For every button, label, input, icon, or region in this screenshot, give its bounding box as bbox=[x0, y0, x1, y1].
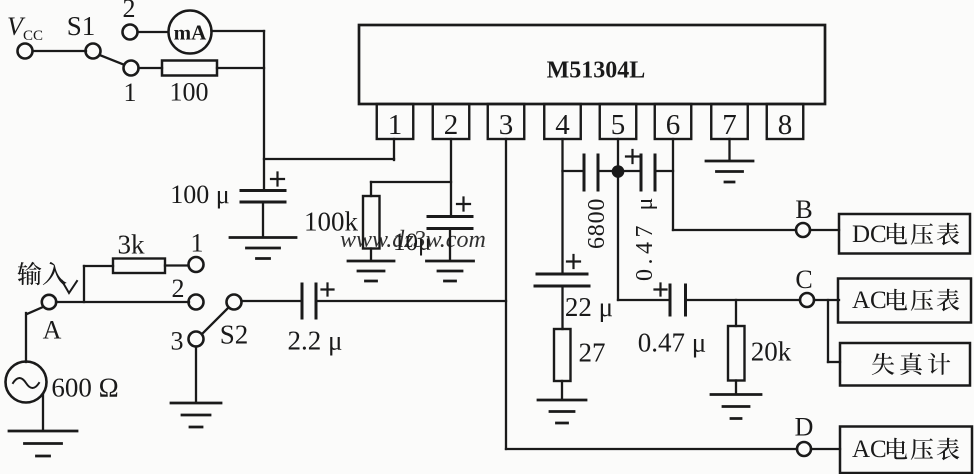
wire 100k to ground bbox=[370, 249, 372, 261]
switch S2 arm bbox=[203, 308, 229, 334]
plus sign of 22u bbox=[567, 255, 580, 268]
ground under 27 bbox=[538, 400, 586, 423]
capacitor 2.2u bbox=[301, 284, 304, 318]
wire 100u to ground bbox=[262, 202, 264, 236]
plus sign of 0.47u first bbox=[626, 150, 639, 163]
wire 2.2u to pin3 wire bbox=[316, 300, 506, 302]
svg-text:5: 5 bbox=[611, 109, 626, 141]
svg-text:22 μ: 22 μ bbox=[565, 292, 613, 322]
S2 contact 2 bbox=[189, 295, 204, 310]
wire mA to rail bbox=[212, 30, 265, 32]
svg-text:100: 100 bbox=[170, 78, 209, 107]
box DC voltmeter bbox=[839, 214, 970, 254]
switch S2 pole bbox=[227, 295, 242, 310]
wire 3k to contact1 bbox=[165, 264, 188, 266]
svg-text:20k: 20k bbox=[751, 337, 792, 367]
capacitor 0.47u lower bbox=[669, 285, 672, 315]
svg-text:8: 8 bbox=[778, 109, 793, 141]
signal source 600ohm bbox=[6, 362, 47, 403]
svg-text:3: 3 bbox=[171, 327, 184, 356]
switch S1 pivot contact bbox=[86, 44, 101, 59]
resistor 3k bbox=[113, 259, 165, 274]
resistor 100k bbox=[363, 196, 380, 249]
svg-text:100 μ: 100 μ bbox=[170, 180, 229, 209]
wire branch to distortion meter bbox=[827, 300, 829, 362]
capacitor 22u bbox=[537, 273, 587, 276]
wire pin1 down bbox=[393, 139, 395, 160]
S1 contact 1 bbox=[124, 61, 139, 76]
pin 1 box bbox=[377, 104, 414, 139]
terminal A bbox=[42, 295, 56, 309]
input label 输入 bbox=[17, 262, 41, 285]
wire to 0.47u lower bbox=[618, 299, 670, 301]
wire 0.47u to pin6 wire bbox=[655, 170, 673, 172]
wire pin3 down to D row bbox=[505, 139, 507, 449]
svg-text:2: 2 bbox=[172, 274, 185, 303]
wire down to source bbox=[25, 313, 27, 362]
text 失真计 bbox=[872, 353, 894, 375]
svg-text:27: 27 bbox=[579, 338, 606, 368]
wire to 20k bbox=[735, 300, 737, 326]
svg-text:1: 1 bbox=[388, 109, 403, 141]
svg-text:7: 7 bbox=[722, 109, 737, 141]
wire pin7 down bbox=[728, 139, 730, 160]
svg-text:2.2 μ: 2.2 μ bbox=[288, 326, 343, 356]
svg-text:1: 1 bbox=[191, 229, 204, 258]
resistor 100 bbox=[162, 61, 217, 76]
wire contact3 to ground bbox=[195, 347, 197, 403]
wire Vcc to S1 pivot bbox=[33, 50, 86, 52]
wire 27 to ground bbox=[561, 381, 563, 399]
wire pin2 to 100k bbox=[371, 181, 451, 183]
svg-text:3k: 3k bbox=[118, 230, 146, 260]
wire A to source bbox=[27, 307, 43, 314]
svg-text:M51304L: M51304L bbox=[547, 58, 646, 84]
IC M51304L body bbox=[359, 25, 825, 104]
wire rail to pin1 bbox=[264, 158, 394, 160]
wire pin6 down bbox=[672, 139, 674, 230]
wire pin5 down bbox=[617, 139, 619, 300]
wire pin4 to 6800 bbox=[563, 170, 585, 172]
Vcc terminal bbox=[18, 44, 33, 59]
ground under S2 bbox=[171, 403, 221, 427]
terminal B bbox=[796, 223, 810, 237]
svg-text:AC: AC bbox=[852, 287, 887, 314]
svg-text:C: C bbox=[795, 265, 812, 294]
svg-text:0.47 μ: 0.47 μ bbox=[638, 328, 706, 358]
svg-text:B: B bbox=[795, 195, 812, 224]
switch S1 arm bbox=[100, 55, 124, 65]
wire S2 to 2.2u bbox=[242, 300, 303, 302]
wire 100k top bbox=[370, 182, 372, 196]
pin 4 box bbox=[544, 104, 581, 139]
wire into distortion meter bbox=[828, 361, 840, 363]
wire resistor to rail bbox=[217, 67, 264, 69]
svg-text:3: 3 bbox=[499, 109, 514, 141]
svg-text:600 Ω: 600 Ω bbox=[51, 373, 118, 403]
svg-text:2: 2 bbox=[444, 109, 459, 141]
svg-text:2: 2 bbox=[123, 0, 136, 23]
input arrow bbox=[62, 281, 77, 293]
resistor 27 bbox=[554, 329, 571, 381]
wire A to S2 contact2 bbox=[56, 301, 189, 303]
ground under 100u bbox=[230, 238, 296, 259]
wire to 3k bbox=[84, 265, 113, 267]
sine wave inside source bbox=[13, 378, 39, 388]
svg-text:S1: S1 bbox=[67, 11, 96, 41]
wire 22u to 27 bbox=[561, 286, 563, 329]
svg-text:DC: DC bbox=[852, 221, 887, 248]
S2 contact 3 bbox=[189, 332, 204, 347]
svg-text:4: 4 bbox=[555, 109, 570, 141]
junction node dot pin5 bbox=[612, 165, 625, 178]
plus sign of 10u bbox=[457, 198, 470, 211]
terminal D bbox=[797, 442, 811, 456]
svg-text:D: D bbox=[795, 413, 814, 442]
plus sign of 100u bbox=[271, 173, 284, 186]
wire contact1 to resistor 100 bbox=[139, 67, 163, 69]
wire up to 3k bbox=[83, 266, 85, 302]
ammeter mA bbox=[169, 11, 212, 54]
pin 7 box bbox=[711, 104, 748, 139]
svg-text:6: 6 bbox=[666, 109, 681, 141]
svg-text:S2: S2 bbox=[220, 320, 249, 350]
ground under source bbox=[9, 431, 77, 456]
terminal C bbox=[800, 293, 814, 307]
wire source to ground bbox=[42, 394, 44, 430]
svg-text:AC: AC bbox=[852, 436, 887, 463]
wire pin2 down bbox=[450, 139, 452, 216]
svg-text:mA: mA bbox=[174, 21, 207, 45]
wire 6800 to junction bbox=[598, 170, 641, 172]
svg-text:1: 1 bbox=[124, 78, 137, 107]
wire contact2 to mA meter bbox=[138, 31, 169, 33]
wire B to DC voltmeter bbox=[810, 229, 839, 231]
capacitor 6800 bbox=[583, 155, 586, 190]
ground under pin7 bbox=[706, 161, 753, 182]
wire pin4 down bbox=[561, 139, 563, 274]
pin 8 box bbox=[767, 104, 804, 139]
capacitor 100u bbox=[241, 189, 285, 192]
capacitor 0.47u upper bbox=[640, 155, 643, 190]
ground under 100k bbox=[348, 261, 394, 281]
plus sign of 0.47u lower bbox=[655, 284, 667, 296]
wire to terminal B bbox=[673, 229, 796, 231]
pin 5 box bbox=[600, 104, 637, 139]
box distortion meter bbox=[840, 343, 970, 386]
ground under 20k bbox=[711, 395, 761, 419]
svg-text:0.47 μ: 0.47 μ bbox=[632, 193, 658, 281]
pin 6 box bbox=[655, 104, 692, 139]
S1 contact 2 bbox=[123, 25, 138, 40]
resistor 20k bbox=[728, 326, 745, 381]
capacitor 10u at pin2 bbox=[428, 215, 472, 218]
svg-text:A: A bbox=[43, 316, 62, 345]
box AC voltmeter 1 bbox=[838, 279, 971, 323]
svg-text:www.dz3w.com: www.dz3w.com bbox=[340, 227, 486, 253]
ground under 10u bbox=[427, 261, 474, 281]
box AC voltmeter 2 bbox=[840, 427, 972, 474]
wire C to AC voltmeter bbox=[814, 299, 839, 301]
wire to terminal D bbox=[506, 448, 797, 450]
svg-text:6800: 6800 bbox=[584, 198, 610, 249]
pin 3 box bbox=[488, 104, 525, 139]
Vcc rail vertical wire bbox=[263, 31, 265, 190]
wire to terminal C bbox=[686, 299, 801, 301]
wire 20k to ground bbox=[735, 381, 737, 394]
plus sign of 2.2u bbox=[322, 284, 334, 296]
wire D to AC voltmeter 2 bbox=[811, 448, 840, 450]
wire 10u to ground bbox=[449, 229, 451, 261]
svg-text:CC: CC bbox=[23, 28, 43, 44]
S2 contact 1 bbox=[189, 257, 204, 272]
pin 2 box bbox=[433, 104, 470, 139]
